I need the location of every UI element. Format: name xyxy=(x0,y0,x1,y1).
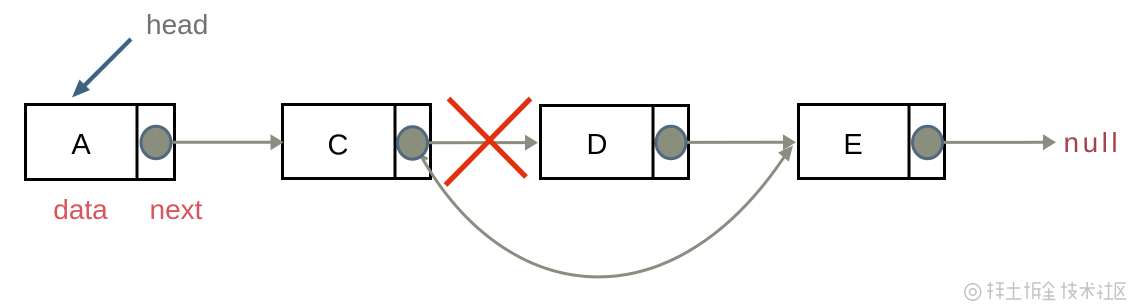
svg-text:D: D xyxy=(587,129,608,161)
svg-text:data: data xyxy=(53,194,108,225)
svg-text:E: E xyxy=(843,129,862,161)
svg-text:A: A xyxy=(71,129,91,161)
svg-text:null: null xyxy=(1064,127,1122,158)
svg-text:next: next xyxy=(150,194,203,225)
svg-text:C: C xyxy=(328,130,349,162)
svg-text:head: head xyxy=(146,9,208,40)
